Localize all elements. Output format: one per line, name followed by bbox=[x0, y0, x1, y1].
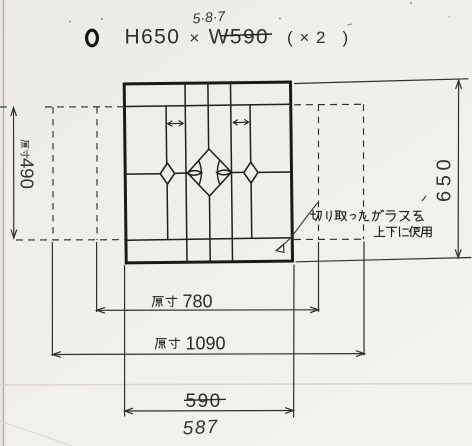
1090 left extension line bbox=[51, 243, 53, 356]
mullion x=166.5 below small diamond bbox=[166, 184, 169, 239]
mullion x=186 full height bbox=[185, 84, 187, 261]
780 right extension line bbox=[318, 243, 320, 312]
650 bottom extension line bbox=[296, 258, 471, 262]
490 label rotated bbox=[21, 140, 29, 158]
bottom crease line bbox=[0, 384, 472, 386]
center mullion above big diamond bbox=[207, 84, 210, 149]
left dashed panel top edge bbox=[0, 106, 8, 108]
bottom rail horizontal divider bbox=[126, 238, 292, 240]
svg-text:780: 780 bbox=[183, 292, 213, 312]
mullion x=231.5 full height bbox=[230, 84, 232, 261]
right arc bbox=[217, 160, 220, 185]
1090 right extension line bbox=[363, 242, 365, 355]
title circle mark bbox=[87, 30, 98, 46]
590 right extension line bbox=[293, 265, 295, 417]
490 vertical dimension line bbox=[13, 108, 15, 239]
strikethrough over 590 bbox=[221, 34, 272, 36]
590 left extension line bbox=[124, 266, 126, 417]
mid horizontal bar right of small diamond bbox=[258, 171, 291, 173]
big diamond bbox=[187, 149, 231, 196]
590 dimension line bbox=[125, 410, 294, 413]
mid horizontal bar left of small diamond bbox=[125, 173, 160, 175]
mullion x=251 below small diamond bbox=[250, 183, 253, 238]
dashed panels bbox=[0, 104, 364, 240]
svg-text:587: 587 bbox=[182, 417, 219, 440]
dimension lines bbox=[11, 79, 471, 417]
svg-text:650: 650 bbox=[434, 155, 456, 202]
1090 dimension line bbox=[52, 353, 364, 356]
svg-text:5·8·7: 5·8·7 bbox=[192, 8, 227, 27]
mid horizontal bar between left small diamond and mullion bbox=[174, 172, 187, 174]
left small diamond bbox=[160, 163, 175, 184]
780 dimension line bbox=[97, 309, 319, 312]
right dashed panel bottom edge bbox=[294, 238, 364, 240]
mullion x=251 above small diamond bbox=[249, 105, 252, 162]
right dashed panel right side bbox=[363, 104, 365, 239]
mid horizontal bar between mullion and right small diamond bbox=[232, 171, 244, 173]
1090 label bbox=[155, 338, 180, 349]
left lens bbox=[187, 171, 202, 176]
right width arrow in top band bbox=[233, 120, 248, 125]
780 left extension line bbox=[96, 243, 98, 312]
right dashed panel top edge bbox=[294, 103, 364, 106]
bottom-left diagonal crease bbox=[0, 421, 72, 446]
right small diamond bbox=[244, 162, 258, 183]
svg-text:590: 590 bbox=[186, 391, 222, 412]
strikethrough over bottom 590 bbox=[184, 399, 226, 400]
leader open arrowhead bbox=[276, 244, 284, 252]
left arc bbox=[199, 160, 202, 185]
svg-text:H650×W590: H650×W590 bbox=[125, 26, 270, 49]
svg-text:490: 490 bbox=[17, 158, 38, 189]
center mullion below big diamond bbox=[208, 196, 211, 261]
stray tick near 650 bbox=[422, 196, 426, 201]
780 label bbox=[152, 296, 177, 307]
leader line from note to pane bbox=[277, 203, 319, 251]
dust specks bbox=[69, 21, 71, 23]
note line 1 bbox=[310, 210, 423, 221]
window outer frame (thick border) bbox=[124, 82, 292, 263]
paper left edge shading bbox=[0, 0, 3, 446]
650 vertical dimension line bbox=[457, 81, 459, 258]
top rail horizontal divider bbox=[124, 104, 290, 106]
note line 2 bbox=[374, 226, 431, 236]
svg-text:1090: 1090 bbox=[186, 334, 226, 354]
right lens bbox=[217, 170, 232, 175]
left dashed panel bottom edge bbox=[16, 239, 125, 241]
mullion x=166.5 above small diamond bbox=[165, 106, 168, 163]
left dashed panel left side bbox=[52, 107, 54, 240]
left width arrow in top band bbox=[168, 121, 183, 126]
650 top extension line bbox=[295, 79, 469, 84]
left dashed panel right side bbox=[96, 107, 98, 240]
right dashed panel left side bbox=[318, 105, 320, 240]
